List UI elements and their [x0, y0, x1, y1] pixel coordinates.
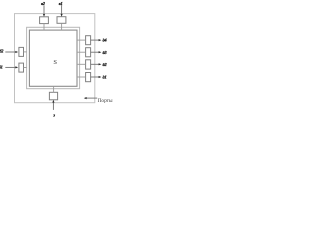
pin box д2	[86, 60, 91, 69]
arrow д2	[91, 63, 100, 65]
pin box б1	[19, 63, 24, 72]
arrow д4	[91, 39, 100, 41]
wire в2 to S	[43, 24, 45, 31]
arrow в1	[61, 5, 63, 14]
arrow д3	[91, 51, 100, 53]
wire в1 to S	[61, 23, 63, 30]
wire б1 to S	[24, 67, 27, 69]
svg-text:Порты: Порты	[98, 98, 113, 104]
pin box з	[49, 92, 57, 100]
pin box д1	[86, 73, 91, 82]
wire S to з box	[53, 86, 55, 92]
arrow д1	[91, 76, 100, 78]
wire S to д1	[77, 76, 86, 78]
svg-text:б1: б1	[0, 64, 3, 69]
pin box д3	[86, 48, 91, 57]
wire б2 to S	[24, 51, 27, 53]
ports block frame	[15, 14, 95, 103]
arrow Порты	[86, 97, 97, 99]
svg-text:в1: в1	[59, 1, 63, 6]
pin box в1	[57, 17, 66, 24]
wire S to д4	[77, 39, 86, 41]
pin box в2	[40, 17, 49, 24]
arrow з	[52, 102, 54, 110]
svg-text:S: S	[53, 59, 57, 66]
wire S to д2	[77, 63, 86, 65]
pin box б2	[19, 47, 24, 56]
svg-text:д1: д1	[103, 75, 107, 80]
register S outer border	[27, 27, 80, 88]
arrow в2	[43, 6, 45, 15]
wire S to д3	[77, 51, 86, 53]
arrow б2	[5, 51, 16, 53]
arrow б1	[5, 66, 16, 68]
pin box д4	[86, 36, 91, 45]
register S inner border	[29, 30, 77, 86]
